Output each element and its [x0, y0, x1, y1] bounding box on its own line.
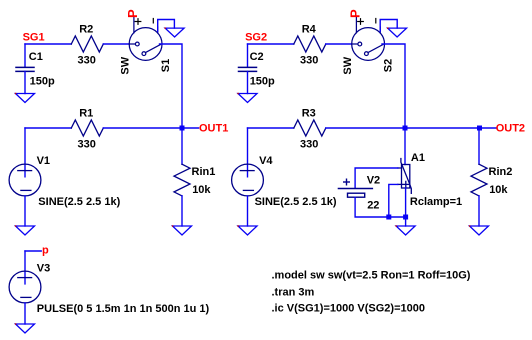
svg-text:S1: S1	[160, 59, 172, 72]
ground below C1	[15, 93, 35, 103]
svg-text:.model sw sw(vt=2.5 Ron=1 Roff: .model sw sw(vt=2.5 Ron=1 Roff=10G)	[272, 270, 471, 282]
capacitor C1	[16, 67, 34, 71]
svg-text:OUT1: OUT1	[199, 122, 228, 134]
wire OUT1 down to Rin1	[181, 128, 183, 164]
wire S1 minus control to ground	[158, 20, 175, 32]
svg-text:C1: C1	[29, 51, 43, 63]
wire V4 to R3	[248, 127, 294, 129]
wire R1 to OUT1	[103, 127, 182, 129]
wire S1 output to OUT1 column	[160, 44, 183, 128]
svg-text:R1: R1	[79, 108, 93, 120]
svg-text:PULSE(0 5 1.5m 1n 1n 500n 1u 1: PULSE(0 5 1.5m 1n 1n 500n 1u 1)	[37, 303, 210, 315]
wire A1 control down	[389, 184, 398, 217]
ground below A1	[396, 225, 416, 235]
wire R2 to S1	[103, 43, 129, 45]
svg-text:OUT2: OUT2	[496, 122, 525, 134]
wire OUT2 stub	[479, 127, 496, 129]
svg-text:V2: V2	[367, 175, 380, 187]
svg-text:P: P	[125, 9, 140, 18]
svg-text:Rin1: Rin1	[192, 166, 216, 178]
ground below Rin1	[172, 225, 192, 235]
svg-text:22: 22	[367, 200, 379, 212]
resistor R4	[294, 36, 326, 52]
svg-text:R3: R3	[302, 108, 316, 120]
svg-text:V3: V3	[37, 262, 50, 274]
svg-text:R4: R4	[302, 24, 317, 36]
resistor R2	[71, 36, 103, 52]
svg-text:SG2: SG2	[245, 31, 267, 43]
svg-text:P: P	[347, 9, 362, 18]
junction OUT1	[180, 126, 185, 131]
svg-text:10k: 10k	[192, 184, 211, 196]
svg-text:Rclamp=1: Rclamp=1	[410, 196, 462, 208]
svg-text:p: p	[42, 245, 49, 257]
resistor R1	[71, 120, 103, 136]
svg-text:.ic V(SG1)=1000 V(SG2)=1000: .ic V(SG1)=1000 V(SG2)=1000	[272, 303, 425, 315]
wire A1 bottom pin	[405, 188, 407, 226]
svg-text:330: 330	[78, 55, 96, 67]
ground below Rin2	[469, 225, 489, 235]
svg-text:Rin2: Rin2	[489, 166, 513, 178]
resistor R3	[294, 120, 326, 136]
wire C2 to ground	[247, 71, 249, 93]
wire OUT2 down to Rin2	[478, 128, 480, 164]
wire V3 to ground	[24, 303, 26, 324]
svg-text:R2: R2	[79, 24, 93, 36]
resistor Rin2	[471, 164, 487, 196]
voltage source V3	[24, 251, 26, 284]
junction OUT2	[477, 126, 482, 131]
junction A1 bottom	[403, 215, 408, 220]
wire S2 minus control to ground	[380, 20, 397, 32]
svg-text:.tran 3m: .tran 3m	[272, 286, 315, 298]
svg-text:330: 330	[300, 139, 318, 151]
wire C1 to ground	[24, 71, 26, 93]
svg-text:SINE(2.5 2.5 1k): SINE(2.5 2.5 1k)	[38, 196, 120, 208]
wire S2 output to OUT2 column	[382, 44, 405, 128]
svg-text:150p: 150p	[250, 76, 275, 88]
wire V3 to node p	[25, 250, 41, 252]
wire V2 bottom	[355, 197, 406, 217]
ground at S1 control	[165, 27, 185, 37]
wire SG2 horizontal	[248, 43, 294, 45]
svg-text:SG1: SG1	[23, 31, 45, 43]
ground below V3	[15, 323, 35, 333]
voltage source V4	[247, 128, 249, 177]
wire SG1 vertical	[24, 44, 26, 67]
ground at S2 control	[387, 27, 407, 37]
wire SG2 vertical	[247, 44, 249, 67]
svg-text:150p: 150p	[30, 75, 55, 87]
svg-text:330: 330	[300, 55, 318, 67]
wire R3 to A1 column	[326, 127, 405, 129]
svg-text:A1: A1	[411, 152, 425, 164]
wire SG1 horizontal	[25, 43, 71, 45]
wire A1 top pin	[404, 128, 406, 165]
wire Rin1 to ground	[181, 196, 183, 226]
wire V4 to ground	[247, 196, 249, 226]
svg-text:SW: SW	[342, 56, 354, 74]
ground below V4	[237, 225, 257, 235]
wire OUT1 stub	[182, 127, 199, 129]
wire V1 to ground	[24, 196, 26, 226]
svg-text:S2: S2	[382, 59, 394, 72]
wire V1 to R1	[25, 127, 71, 129]
switch S1	[129, 17, 162, 61]
ground below C2	[237, 93, 257, 103]
svg-text:10k: 10k	[489, 184, 508, 196]
varistor A1	[398, 159, 412, 194]
wire A1 column to Rin2 column	[405, 127, 479, 129]
battery V2	[355, 168, 398, 188]
svg-text:330: 330	[78, 139, 96, 151]
svg-text:SINE(2.5 2.5 1k): SINE(2.5 2.5 1k)	[255, 196, 337, 208]
svg-text:V4: V4	[259, 155, 273, 167]
resistor Rin1	[174, 164, 190, 196]
svg-text:SW: SW	[119, 56, 131, 74]
wire Rin2 to ground	[478, 196, 480, 226]
capacitor C2	[239, 67, 257, 71]
wire R4 to S2	[326, 43, 352, 45]
ground below V1	[15, 225, 35, 235]
svg-text:V1: V1	[37, 155, 50, 167]
junction V2 control	[386, 215, 391, 220]
voltage source V1	[24, 128, 26, 177]
junction A1 top	[403, 126, 408, 131]
switch S2	[352, 17, 385, 61]
svg-text:C2: C2	[250, 51, 264, 63]
